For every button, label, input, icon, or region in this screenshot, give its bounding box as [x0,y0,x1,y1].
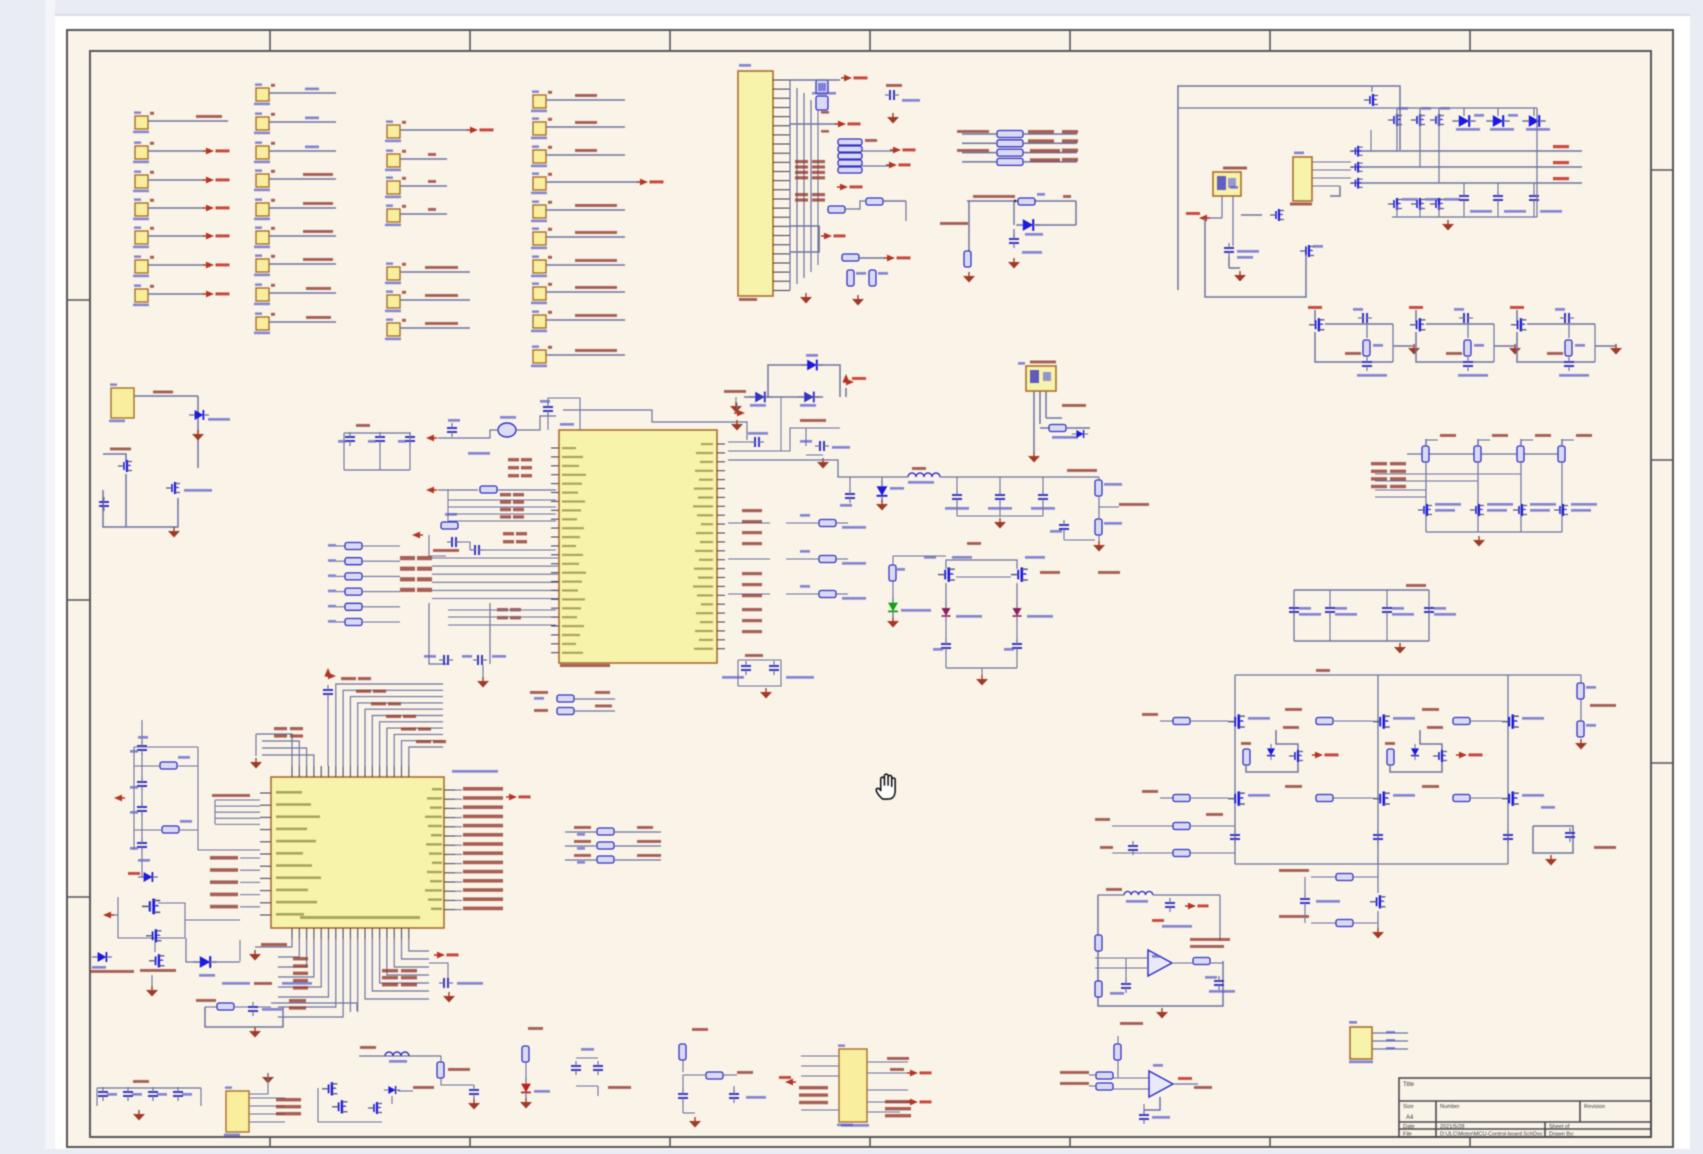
wire box left-mid [103,103,490,527]
X label under [468,452,490,455]
U1 top-left cap [540,398,580,430]
Y inductor L1 [908,467,940,484]
resistor R14 vertical [847,270,866,286]
Z cap right [1004,620,1022,653]
decoupling cap C13 [1424,590,1456,641]
X crystal caps [412,532,556,556]
mosfet Q12 [1300,245,1323,257]
X cap 2 [368,432,385,446]
R6 label [528,1027,543,1030]
U10 top bus [256,684,443,766]
W wires [141,720,143,878]
U label [745,654,763,657]
U10 top-left labels [274,727,303,738]
power flag VCC pin1 [790,75,868,82]
Z res left [889,556,946,581]
power flag mid1 [862,147,916,154]
O right wires [1580,675,1582,721]
S row 1 [530,691,615,702]
R2 bottom wires [97,1088,201,1106]
Y caps row [945,490,1055,510]
X lower wire box [429,603,490,664]
Z ground [976,675,988,686]
Y wire after L1 [940,469,1099,477]
U cap 1 [722,661,751,679]
Y res divider bottom [1095,496,1122,535]
ground under R14 [852,295,864,306]
decoupling cap C12 [1382,590,1414,641]
Z diode left [942,603,983,621]
vertical branch [969,200,1016,251]
svg-text:Revision: Revision [1584,1104,1605,1110]
W power flag [114,795,125,802]
connector P24 with VREF label [385,262,470,284]
connector J2 yellow box [109,383,134,422]
diode D1 [189,410,230,421]
P opamp U5 [1148,950,1172,976]
RC stage 3 ground [1595,344,1622,355]
Y divider cap [1050,520,1095,540]
resistor RN1 vertical [816,80,828,94]
Y resistor row 1 [728,514,866,529]
resistor R15 vertical [869,270,888,286]
P in label [1106,888,1122,891]
U10 bottom gnd left [249,950,261,961]
Y rc ground [806,455,829,469]
Y ground top [731,420,743,431]
Z bottom [946,653,1017,675]
Z mosfet right [1011,556,1120,582]
O row1 resistor 1 [1173,718,1228,725]
R3 ground [249,1073,274,1094]
CON24 pin stubs [773,80,790,290]
transistor Q6 [798,392,820,407]
O row1 mosfet 3 [1502,714,1544,728]
U4 pins to buffers [1312,162,1351,196]
net label row [110,448,131,451]
U10 pin names [276,788,442,919]
W mosfet 2 [146,929,161,942]
connector P23 [385,204,447,226]
P wires mid [1095,958,1148,984]
T row 1 [565,826,661,836]
X xtal label [433,549,459,552]
O sense block wires [1533,826,1573,853]
power flag mid2 [862,162,911,169]
R1 ground [249,1027,261,1038]
M row wires [1375,474,1521,497]
svg-text:Drawn By:: Drawn By: [1549,1132,1575,1138]
connector P32 [531,145,625,167]
Y rc wires [728,428,840,451]
capacitor C5 [1009,229,1042,254]
O right res 2 [1577,721,1596,737]
RC stage 2 input flag [1409,306,1423,322]
mosfet row2 col1 [1388,198,1418,210]
R5 inductor [385,1052,409,1063]
wire bend [103,454,126,462]
connector P13 with net label [254,169,336,191]
S row 2 [534,705,615,715]
mosfet row2 col2 [1411,198,1441,210]
Q fb wires [1144,1097,1160,1115]
O right res 1 [1577,683,1596,699]
X block out wires [432,558,558,599]
wire J main [744,396,823,398]
R5 cap [441,1078,479,1099]
ground under wire box [168,527,180,538]
RC stage 2 resistor [1446,340,1484,356]
W mosfet big [118,897,185,938]
Z led ground [887,617,899,628]
Z diode right [1013,603,1054,621]
P cap 3 [1205,976,1235,993]
pullup 4 label [1576,434,1592,437]
P inductor [1098,891,1220,902]
R7 label [608,1086,631,1089]
Y resistor row 2 [728,550,866,565]
connector P34 [531,200,625,222]
Y rc label [800,419,826,422]
bus row 1 [1351,145,1582,151]
R4 mosfet pair [318,1082,382,1122]
W mosfet 3 [149,942,164,967]
Y caps ground [994,518,1006,529]
Y rc cap [800,440,850,451]
connector P16 with net label [254,254,336,276]
RC stage 3 input flag [1510,306,1524,322]
W wire box [134,747,260,850]
O sense cap [1541,806,1616,849]
Q opamp U6 [1149,1064,1173,1097]
pullup 1 label [1440,434,1456,437]
U10 top bus labels [341,677,446,743]
O lower row 1 [1279,869,1378,881]
Q in labels [1060,1071,1089,1085]
transistor T20 yellow box [1349,1021,1373,1063]
O driver 2 flag [1456,752,1483,759]
RC stage 1 transistor [1309,318,1324,331]
mosfet column 2 [1411,107,1431,167]
U10 left wires upper [212,794,260,824]
R2 cap 3 [148,1087,167,1101]
W bottom labels 2 [222,982,312,985]
U10 bottom flag [434,952,459,959]
top bus wire [1178,107,1537,109]
title block [1399,1078,1651,1138]
U10 top/bottom pin stubs [292,766,409,939]
R2 cap 2 [123,1087,142,1101]
Y ground D6 [876,500,888,511]
connector P26 with VREF label [385,318,470,340]
Z top label [967,542,981,545]
connector P15 with net label [254,226,336,248]
R8 cap left [678,1075,688,1103]
O row1 mosfet 2 [1373,714,1415,728]
R8 resistor right [683,1071,753,1079]
Y diode D6 [877,477,904,502]
pin bracket wires [790,226,819,252]
Y divider ground [1093,535,1105,552]
svg-text:Number: Number [1440,1104,1460,1110]
Y resistor row 3 [728,585,866,600]
R3 pins [249,1098,285,1122]
X bottom rail [344,433,410,470]
R7 caps [571,1048,603,1096]
branch wires [768,365,846,397]
ground under C4 [887,113,899,124]
R8 ground [683,1103,701,1128]
pullup 1 wire [1425,462,1427,532]
O row1 resistor 3 [1453,718,1502,725]
O right label [1590,704,1616,707]
mosfet column 3 [1430,107,1450,183]
R3 connector J3 [224,1086,249,1136]
U1 left pin stubs [551,448,559,653]
M bottom rail [1426,531,1562,533]
W resistor 1 [134,756,198,769]
resistor R25 vertical [964,251,971,267]
svg-text:D:\JLC\Motor\MCU-Control-board: D:\JLC\Motor\MCU-Control-board.SchDoc [1440,1132,1543,1138]
R6 ground [520,1098,532,1109]
connector P38 [531,310,625,332]
O lower row 2 [1279,915,1378,927]
ground under R25 [963,272,975,283]
RC stage 3 transistor [1511,318,1526,331]
O top rail [1235,669,1581,675]
mcu U10 body [271,770,498,928]
O row2 resistor 1 [1173,795,1228,802]
net label mid [940,222,968,225]
net label under opto [1046,404,1086,418]
ground under CON24 [800,293,812,304]
buffer b3 [1350,178,1363,189]
Q out [1174,1077,1212,1089]
M top rail [1407,453,1562,455]
R2 cap 1 [98,1087,117,1101]
X resistor R30 [480,486,556,493]
O driver 1 label [1283,726,1299,729]
R2 top rail [97,1080,201,1088]
power flag pin5 [790,121,861,128]
P cap 2 [1110,979,1131,995]
RC stage 3 wires [1517,324,1595,362]
X cap 1 [338,432,355,446]
P feedback resistor [1172,958,1223,965]
connector P6 with net wire [133,255,230,277]
RC stage 1 resistor [1345,340,1383,356]
O cap rail 1 [1230,830,1240,844]
pin1 labels [821,111,829,133]
R9 right labels [885,1057,911,1117]
X stack 3 [503,532,527,543]
net label in [724,390,746,393]
W ground bottom [146,975,158,997]
R9 connector J4 [837,1044,869,1126]
transistor Q10 top [1364,86,1378,106]
Y labels col [742,509,762,633]
power flag out [843,374,866,385]
net label stack F1 [795,160,825,179]
O row2 mid label [1285,785,1302,788]
CON24 vertical wire bundle [790,80,818,290]
R4 mosfet 3 [368,1102,382,1114]
O row1 mid label [1285,708,1302,711]
O lower ground [1372,911,1384,939]
R5 in label [360,1046,376,1049]
svg-text:Date: Date [1403,1124,1415,1130]
ground rail L [1442,220,1454,231]
X lower ground [477,665,489,688]
O row1 resistor 2 [1316,718,1373,725]
R8 resistor top [679,1028,708,1072]
R1 resistor [205,1003,271,1010]
svg-text:Title: Title [1403,1082,1415,1088]
Q in resistors [1089,1072,1149,1090]
connector P5 with net wire [133,226,230,248]
O driver 1 resistor [1241,742,1251,765]
O driver 2 mosfet [1411,744,1447,762]
connector P11 with net label [254,112,336,134]
R9 left flag [779,1076,796,1085]
X input label block [400,556,432,592]
net wire with label [967,195,1076,225]
T20 pin marks [1386,1031,1395,1049]
R5 resistor [437,1056,470,1078]
pullup 4 resistor [1558,439,1574,462]
ground below D1 [192,430,204,441]
X cap 3 [398,432,415,446]
bottom rail [1392,108,1537,217]
serial net labels right [1028,130,1078,162]
connector P21 [385,149,447,171]
X lower caps row [424,655,506,665]
connector P36 [531,255,625,277]
R8 cap right [729,1086,766,1103]
O driver 2 label [1427,726,1443,729]
Z mid wires [946,577,1017,605]
mosfet column 1 [1388,107,1408,151]
connector P25 with VREF label [385,290,470,312]
O lower mosfet [1370,864,1385,908]
RC stage 1 wires [1315,324,1393,362]
O row2 mid label [1422,785,1439,788]
pullup 1 resistor [1422,439,1438,462]
Q cap [1139,1110,1170,1124]
U10 bottom row1 label [261,943,287,946]
Y caps wires [957,477,1043,516]
pullup 2 label [1492,434,1508,437]
O row1 mid label [1422,708,1439,711]
O vertical rails [1235,675,1508,864]
capacitor C6 [1224,243,1259,259]
resistor R13 to VCC [842,254,911,261]
R2 cap 4 [173,1087,192,1101]
pullup 2 mosfet [1470,503,1513,516]
X input resistor row 3 [328,573,400,580]
P out labels [1190,938,1230,948]
RC stage 2 wires [1416,324,1494,362]
U1 right pin stubs [717,444,725,649]
X crystal resistor [441,513,458,529]
capacitor C4 [885,84,920,102]
W power flag 2 [103,912,118,919]
mosfet Q11 [1241,209,1284,221]
connector P12 with net label [254,141,336,163]
R1 wire box [205,1007,283,1027]
svg-text:File: File [1403,1132,1412,1138]
W transistor right [186,938,240,977]
R5 wire [359,1055,441,1057]
O driver 2 resistor [1385,742,1395,765]
O row2 in label [1142,790,1173,798]
O row2 mosfet 1 [1228,791,1270,805]
U10 bottom cap [429,963,483,1003]
W resistor 2 [134,820,198,833]
O driver 1 mosfet [1267,744,1303,762]
N net label [1406,584,1426,587]
res pair 1 [1459,183,1492,213]
W cap column [130,736,150,862]
resistor R26 [1040,425,1090,439]
power flag bracket [821,233,846,240]
U wire box [738,660,781,686]
U1 pin names [562,443,713,654]
wire loop top [1178,86,1400,290]
X stack 1 [508,458,532,477]
connector P39 [531,345,625,367]
O row1 in label [1142,713,1173,721]
connector P33 [531,172,664,194]
pullup 2 wire [1477,462,1479,532]
mosfet Q1 [118,460,132,472]
N wire box [1294,590,1429,641]
connector P3 with net wire [133,170,230,192]
W connect to mcu [185,920,240,961]
O row2 resistor 3 [1453,795,1502,802]
T row 2 [565,840,661,850]
pullup 4 mosfet [1554,503,1597,516]
X stack 5 [448,608,556,625]
R1 net label [196,999,216,1002]
opto wires down [1034,391,1046,452]
R6 resistor [522,1046,529,1082]
O bottom rail [1235,863,1508,865]
O cap rail 3 [1503,830,1513,844]
RC stage 3 capacitor [1555,308,1574,323]
power flag left [1186,212,1210,221]
RC stage 3 bottom cap [1559,357,1589,377]
U1 top bend wire [563,410,747,440]
label right of Q2 [184,489,212,492]
pullup 3 wire [1520,462,1522,532]
RC stage 1 input flag [1308,306,1322,322]
U cap 2 [769,661,814,679]
W sym left [92,952,112,969]
svg-text:A4: A4 [1406,1115,1414,1121]
ic U4 driver [1290,152,1312,206]
M ground [1473,536,1485,547]
pullup 4 wire [1561,462,1563,532]
net label stack F2 [795,193,825,202]
X input resistor row 1 [328,543,400,550]
res pair 3 [1529,183,1562,213]
U10 side pin stubs [260,790,455,915]
R4 small sym [384,1086,400,1104]
ground J [730,397,742,413]
hand cursor [876,774,895,799]
pullup 2 resistor [1474,439,1490,462]
